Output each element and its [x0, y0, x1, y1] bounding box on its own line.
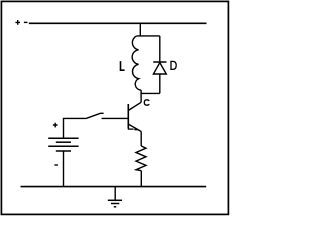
- wire top supply rail: [29, 22, 207, 24]
- transistor Q1 emitter stroke: [128, 124, 141, 131]
- transistor Q1 collector stroke: [128, 102, 141, 110]
- wire top connector L to D: [137, 35, 160, 37]
- label - (battery negative): [54, 164, 58, 166]
- wire battery to bottom rail: [63, 151, 65, 187]
- label + (top supply polarity): [15, 20, 20, 25]
- wire switch to battery: [64, 118, 87, 137]
- battery B1: [48, 138, 78, 151]
- wire bottom connector to diode: [141, 92, 160, 94]
- label c (collector): [144, 100, 149, 105]
- resistor R1: [136, 146, 146, 171]
- wire collector lead: [140, 90, 142, 102]
- inductor L: [132, 36, 141, 90]
- transistor Q1 emitter arrow: [128, 127, 139, 130]
- switch S1 lever: [87, 113, 104, 118]
- label + (battery positive): [53, 123, 58, 128]
- wire base lead: [102, 117, 128, 119]
- label D: [170, 61, 176, 69]
- ground: [108, 187, 122, 207]
- wire bottom rail: [21, 186, 207, 188]
- wire feed from top rail to L/D: [139, 23, 141, 36]
- label L: [121, 61, 125, 70]
- wire emitter to resistor: [140, 132, 142, 147]
- label - (top supply polarity): [24, 21, 28, 23]
- wire resistor to bottom rail: [140, 171, 142, 187]
- transistor Q1 base bar: [127, 104, 129, 129]
- wire diode branch bottom: [159, 74, 161, 93]
- diode D: [153, 62, 166, 74]
- wire diode branch top: [159, 36, 161, 62]
